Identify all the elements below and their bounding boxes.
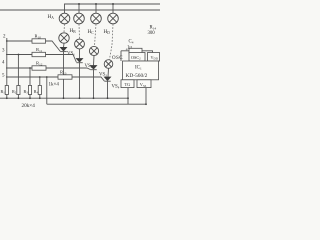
- node junction dropper5: [39, 76, 41, 78]
- lamp HA (top row 1): [59, 13, 70, 24]
- lamp HC (top row): [91, 4, 102, 24]
- lamp channel D lower: [104, 60, 113, 69]
- node junction dropper3: [18, 54, 20, 56]
- wire dropper output3: [17, 55, 19, 86]
- wire lamp A to VS1 anode: [63, 43, 66, 47]
- lamp HD (top row): [108, 4, 119, 24]
- pin box VDD: [148, 53, 160, 62]
- resistor R1 (20k): [5, 86, 8, 99]
- svg-text:R3: R3: [24, 89, 29, 95]
- pin box VSS: [137, 80, 151, 88]
- lamp channel C lower: [89, 46, 98, 55]
- wire VS4 cathode: [107, 81, 109, 98]
- node junction wire2: [6, 40, 8, 42]
- wire dropper output5: [39, 77, 41, 86]
- node junction jog: [46, 76, 48, 78]
- thyristor VS4: [104, 77, 110, 81]
- wire dashed lamp string channel D: [110, 24, 114, 59]
- resistor R11: [32, 52, 46, 56]
- wire VS1 cathode: [63, 52, 65, 99]
- svg-text:KD-560/2: KD-560/2: [126, 73, 148, 79]
- svg-text:C4: C4: [129, 40, 134, 45]
- lamp channel B lower: [75, 39, 85, 49]
- svg-text:VSS: VSS: [140, 82, 147, 88]
- op-amp U1 : IC1 KD-560/2 main box: [123, 61, 159, 80]
- wire output 4 to VS3 gate: [6, 68, 90, 70]
- wire VSS pin down: [145, 88, 147, 105]
- svg-text:TG: TG: [125, 82, 132, 87]
- wire lamp D to VS4 anode: [107, 68, 110, 77]
- resistor R4 (20k): [38, 86, 41, 99]
- wire lower VSS return line: [47, 103, 146, 105]
- svg-text:300: 300: [148, 31, 156, 36]
- svg-text:+: +: [126, 48, 129, 53]
- node junction VSS: [145, 103, 147, 105]
- wire output 2 to VS1 gate: [6, 41, 60, 51]
- lamp channel A lower: [59, 33, 69, 43]
- svg-text:OSC: OSC: [112, 56, 123, 61]
- wire AC line 2: [0, 9, 160, 11]
- wire capacitor C4 link: [121, 51, 153, 61]
- svg-text:20k×4: 20k×4: [22, 103, 36, 109]
- wire jog to lower return line: [46, 77, 48, 104]
- svg-text:R1: R1: [1, 89, 6, 95]
- resistor R12: [32, 66, 46, 70]
- wire output 3 to VS2 gate: [6, 55, 76, 63]
- resistor R3 (20k): [28, 86, 31, 99]
- capacitor C4: [129, 48, 142, 53]
- node junction lamp HC on top line: [95, 3, 97, 5]
- thyristor VS3: [90, 66, 96, 70]
- wire dropper output2: [6, 38, 8, 86]
- wire dashed lamp string channel B: [78, 24, 81, 39]
- svg-text:VS4: VS4: [112, 85, 120, 90]
- wire top AC feed line: [65, 4, 161, 13]
- node junction lamp HB on top line: [78, 3, 80, 5]
- node junction TG bus: [127, 97, 129, 99]
- resistor R2 (20k): [17, 86, 20, 99]
- wire ground bus: [0, 97, 128, 99]
- wire lamp C to VS3 anode: [93, 56, 96, 66]
- node junction lamp HD on top line: [112, 3, 114, 5]
- svg-text:R4: R4: [34, 89, 39, 95]
- node junction dropper4: [29, 67, 31, 69]
- svg-text:VDD: VDD: [151, 55, 159, 61]
- wire TG pin down: [127, 88, 129, 105]
- wire dashed lamp string channel A: [63, 24, 66, 32]
- resistor R13: [58, 75, 72, 79]
- wire lamp B to VS2 anode: [79, 49, 81, 59]
- wire output 5 to VS4 gate: [6, 77, 104, 81]
- thyristor VS1: [60, 47, 66, 51]
- thyristor VS2: [76, 59, 82, 63]
- node junctions on bus: [6, 97, 109, 99]
- svg-text:IC1: IC1: [135, 66, 142, 71]
- svg-text:1k×4: 1k×4: [49, 83, 60, 88]
- svg-text:OSC2: OSC2: [131, 55, 141, 61]
- pin box TG: [121, 80, 134, 88]
- wire VS2 cathode: [79, 63, 81, 98]
- wire VS3 cathode: [93, 70, 95, 99]
- lamp HB (top row): [74, 4, 85, 24]
- pin box OSC2: [129, 53, 145, 62]
- resistor R10: [32, 39, 46, 43]
- wire dashed lamp string channel C: [95, 24, 97, 46]
- svg-text:R14: R14: [150, 26, 157, 31]
- wire dropper output4: [29, 68, 31, 86]
- svg-text:R2: R2: [12, 89, 17, 95]
